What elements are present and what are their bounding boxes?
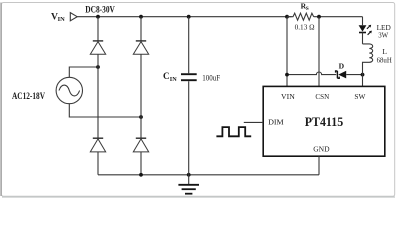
wire bridge left column bbox=[97, 17, 99, 175]
ground bbox=[178, 175, 199, 194]
label DC8-30V bbox=[85, 5, 115, 16]
IC U1 PT4115 box bbox=[263, 86, 385, 156]
node dot top rail / RS left bbox=[285, 15, 289, 19]
pin label GND bbox=[313, 145, 330, 154]
wire CSN pin drop bbox=[318, 17, 320, 87]
wire SW pin drop bbox=[362, 75, 364, 87]
wire LED to inductor bbox=[362, 33, 364, 44]
svg-text:CSN: CSN bbox=[315, 92, 329, 101]
input marker arrow bbox=[70, 13, 77, 21]
svg-text:C: C bbox=[163, 71, 170, 81]
label RS bbox=[301, 2, 309, 13]
svg-text:DIM: DIM bbox=[268, 117, 284, 126]
inductor L bbox=[363, 44, 373, 75]
svg-text:SW: SW bbox=[354, 92, 366, 101]
svg-text:DC8-30V: DC8-30V bbox=[85, 5, 115, 16]
wire GND pin drop bbox=[318, 156, 320, 175]
LED bbox=[359, 25, 372, 35]
wire freewheel with hop over CSN bbox=[287, 72, 336, 75]
svg-text:68uH: 68uH bbox=[377, 55, 393, 64]
diode D (schottky) bbox=[336, 71, 363, 79]
node dot top rail / bridge left bbox=[96, 15, 100, 19]
label PT4115 bbox=[305, 115, 344, 129]
PWM square wave symbol bbox=[216, 127, 251, 136]
label LED 3W bbox=[377, 23, 392, 40]
node dot top rail / CIN bbox=[187, 15, 191, 19]
label L 68uH bbox=[377, 47, 393, 64]
node dot SW junction bbox=[361, 73, 365, 77]
wire bridge right column bbox=[140, 17, 142, 175]
label 100uF bbox=[202, 73, 220, 82]
label AC12-18V bbox=[12, 91, 45, 101]
node A dot bbox=[96, 65, 100, 69]
pin label CSN bbox=[315, 92, 329, 101]
wire AC top terminal bbox=[69, 67, 98, 77]
resistor RS bbox=[287, 13, 314, 20]
svg-text:D: D bbox=[339, 62, 345, 71]
label D bbox=[339, 62, 345, 71]
node dot freewheel / VIN bbox=[285, 73, 289, 77]
wire AC bottom terminal bbox=[69, 104, 141, 117]
node dot bottom rail / ground bbox=[187, 173, 191, 177]
svg-text:S: S bbox=[306, 6, 309, 12]
label VIN input bbox=[51, 12, 65, 23]
bridge diode 1 bbox=[90, 41, 105, 54]
AC source bbox=[56, 77, 82, 103]
label CIN bbox=[163, 71, 177, 83]
bridge diode 4 bbox=[133, 138, 148, 152]
svg-text:GND: GND bbox=[313, 145, 330, 154]
svg-text:100uF: 100uF bbox=[202, 73, 220, 82]
node dot top rail / bridge right bbox=[139, 15, 143, 19]
wire bottom rail bbox=[98, 174, 319, 176]
wire DIM stub bbox=[244, 121, 263, 123]
pin label DIM bbox=[268, 117, 284, 126]
capacitor CIN bbox=[181, 17, 197, 175]
pin label VIN bbox=[281, 92, 295, 101]
svg-text:AC12-18V: AC12-18V bbox=[12, 91, 45, 101]
wire top rail bbox=[77, 16, 362, 18]
wire LED branch top bbox=[362, 17, 364, 26]
bridge diode 3 bbox=[90, 138, 105, 152]
svg-text:PT4115: PT4115 bbox=[305, 115, 344, 129]
svg-text:VIN: VIN bbox=[281, 92, 295, 101]
svg-text:IN: IN bbox=[170, 76, 177, 83]
svg-text:0.13 Ω: 0.13 Ω bbox=[295, 23, 315, 32]
svg-text:3W: 3W bbox=[378, 30, 389, 39]
pin label SW bbox=[354, 92, 366, 101]
bridge diode 2 bbox=[133, 41, 148, 54]
node dot top rail / RS right bbox=[317, 15, 321, 19]
label 0.13 ohm bbox=[295, 23, 315, 32]
svg-text:IN: IN bbox=[58, 16, 65, 23]
wire VIN pin drop bbox=[286, 17, 288, 87]
node B dot bbox=[139, 115, 143, 119]
node dot bottom rail / bridge right bbox=[139, 173, 143, 177]
